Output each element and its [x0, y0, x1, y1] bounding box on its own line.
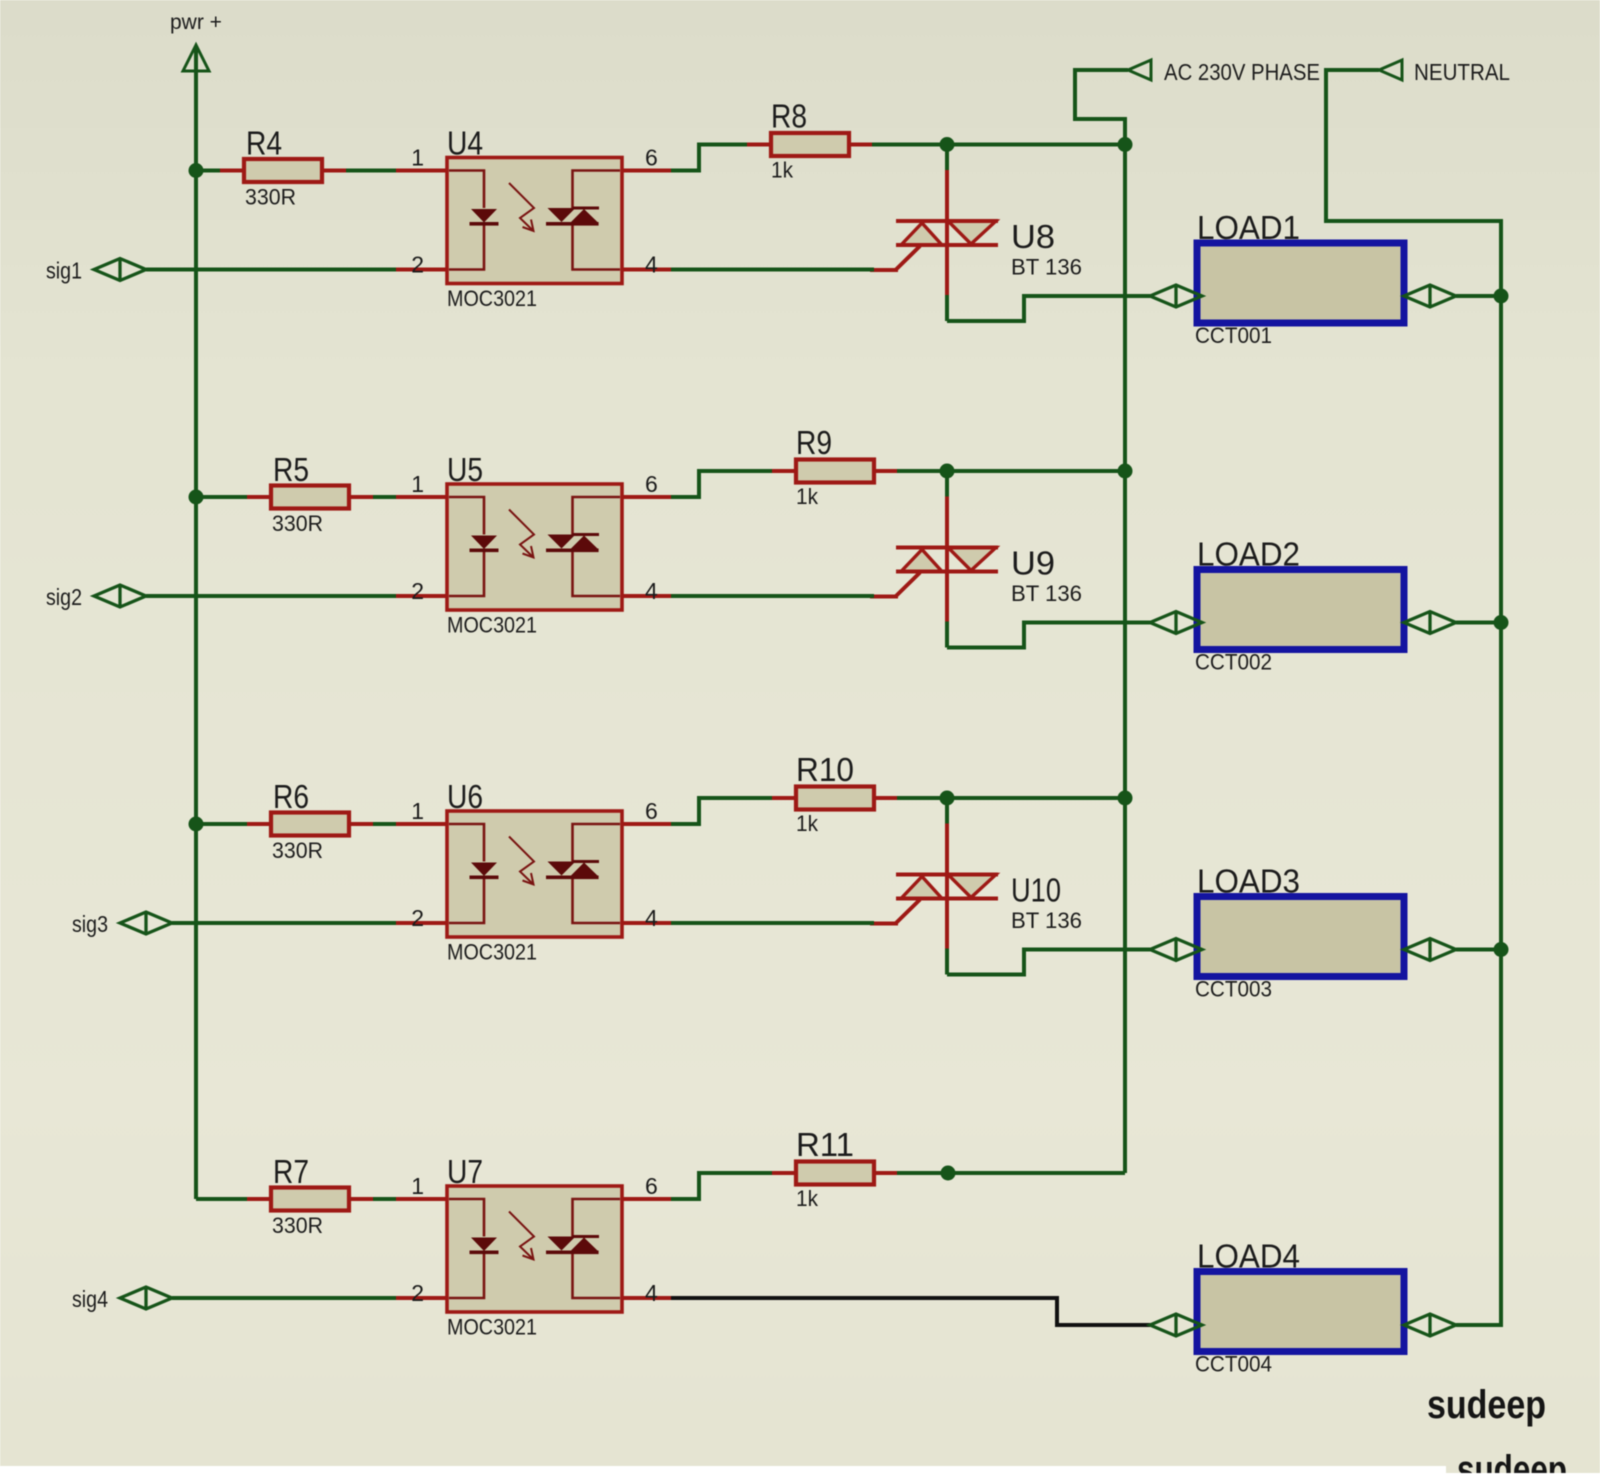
svg-text:2: 2: [411, 578, 424, 604]
svg-text:1: 1: [411, 1173, 424, 1199]
svg-text:R7: R7: [273, 1153, 309, 1190]
svg-text:sig4: sig4: [72, 1286, 108, 1312]
svg-text:1k: 1k: [796, 484, 819, 509]
svg-text:6: 6: [645, 145, 658, 171]
svg-text:1: 1: [411, 145, 424, 171]
svg-text:R5: R5: [273, 451, 309, 488]
svg-text:U5: U5: [447, 451, 483, 488]
svg-text:MOC3021: MOC3021: [447, 940, 537, 965]
svg-text:1: 1: [411, 798, 424, 824]
svg-text:R4: R4: [246, 125, 282, 162]
svg-text:R11: R11: [796, 1126, 854, 1163]
svg-text:6: 6: [645, 798, 658, 824]
svg-text:BT 136: BT 136: [1011, 255, 1082, 280]
svg-text:6: 6: [645, 1173, 658, 1199]
svg-text:MOC3021: MOC3021: [447, 286, 537, 311]
svg-text:2: 2: [411, 1280, 424, 1306]
svg-text:pwr +: pwr +: [170, 11, 222, 34]
svg-text:1k: 1k: [771, 158, 794, 183]
svg-text:330R: 330R: [272, 838, 323, 863]
svg-text:4: 4: [645, 252, 658, 278]
svg-text:2: 2: [411, 905, 424, 931]
svg-text:330R: 330R: [272, 511, 323, 536]
svg-text:1k: 1k: [796, 1186, 819, 1211]
svg-text:sig2: sig2: [46, 584, 82, 610]
svg-text:LOAD4: LOAD4: [1197, 1238, 1300, 1275]
svg-text:NEUTRAL: NEUTRAL: [1414, 59, 1510, 85]
svg-text:LOAD1: LOAD1: [1197, 209, 1300, 246]
svg-text:U9: U9: [1011, 545, 1055, 582]
svg-text:R8: R8: [771, 98, 807, 135]
svg-text:2: 2: [411, 252, 424, 278]
svg-text:LOAD2: LOAD2: [1197, 536, 1300, 573]
svg-text:AC 230V PHASE: AC 230V PHASE: [1164, 59, 1320, 85]
svg-text:U8: U8: [1011, 218, 1055, 255]
svg-text:CCT002: CCT002: [1195, 650, 1272, 675]
svg-text:sig3: sig3: [72, 911, 108, 937]
svg-text:4: 4: [645, 1280, 658, 1306]
svg-text:U7: U7: [447, 1153, 483, 1190]
svg-text:R9: R9: [796, 424, 832, 461]
svg-text:1: 1: [411, 471, 424, 497]
svg-text:sig1: sig1: [46, 258, 82, 284]
svg-text:330R: 330R: [245, 185, 296, 210]
svg-text:U4: U4: [447, 125, 483, 162]
svg-text:R6: R6: [273, 778, 309, 815]
svg-text:R10: R10: [796, 751, 854, 788]
svg-text:4: 4: [645, 905, 658, 931]
svg-text:6: 6: [645, 471, 658, 497]
svg-text:U6: U6: [447, 778, 483, 815]
svg-text:MOC3021: MOC3021: [447, 613, 537, 638]
svg-text:4: 4: [645, 578, 658, 604]
svg-text:sudeep: sudeep: [1457, 1448, 1567, 1473]
svg-text:CCT001: CCT001: [1195, 323, 1272, 348]
svg-text:MOC3021: MOC3021: [447, 1315, 537, 1340]
svg-text:1k: 1k: [796, 811, 819, 836]
svg-text:330R: 330R: [272, 1213, 323, 1238]
svg-text:BT 136: BT 136: [1011, 581, 1082, 606]
svg-text:LOAD3: LOAD3: [1197, 863, 1300, 900]
svg-text:U10: U10: [1011, 872, 1061, 909]
svg-text:CCT004: CCT004: [1195, 1352, 1272, 1377]
svg-text:sudeep: sudeep: [1427, 1383, 1546, 1427]
svg-text:CCT003: CCT003: [1195, 977, 1272, 1002]
svg-text:BT 136: BT 136: [1011, 908, 1082, 933]
